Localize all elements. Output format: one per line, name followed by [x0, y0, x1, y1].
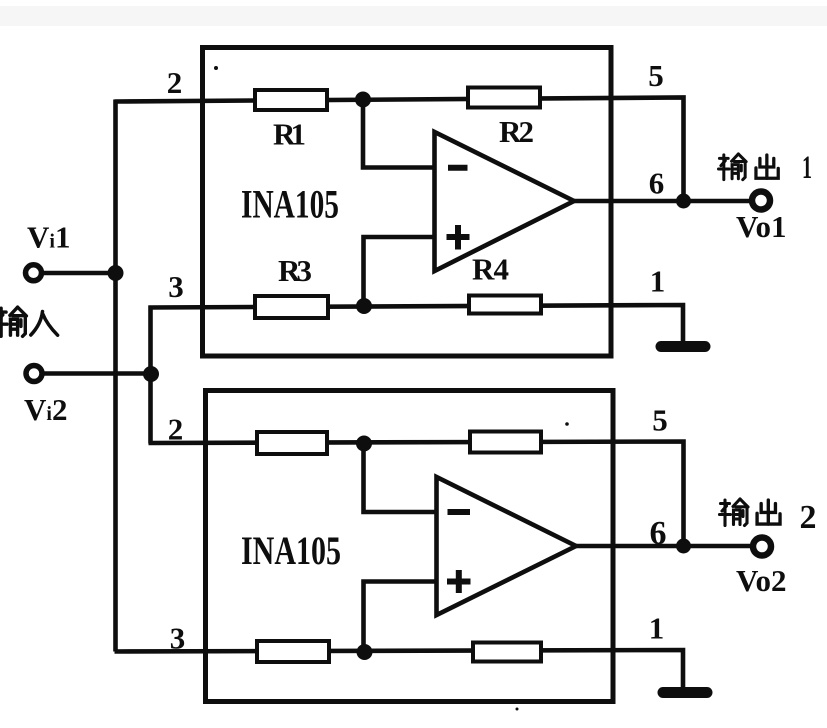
svg-text:Vo2: Vo2: [736, 563, 787, 598]
svg-text:2: 2: [168, 412, 184, 447]
svg-text:1: 1: [802, 150, 812, 186]
svg-text:2: 2: [167, 65, 183, 100]
svg-text:6: 6: [649, 166, 665, 201]
svg-text:3: 3: [168, 269, 184, 304]
svg-text:R4: R4: [472, 252, 509, 287]
svg-text:INA105: INA105: [241, 182, 339, 227]
svg-text:R1: R1: [273, 117, 306, 152]
svg-text:Vi1: Vi1: [27, 220, 70, 255]
svg-text:5: 5: [652, 403, 668, 438]
svg-text:INA105: INA105: [241, 528, 341, 573]
svg-text:2: 2: [800, 499, 817, 536]
svg-text:R2: R2: [499, 114, 534, 149]
svg-text:6: 6: [650, 515, 667, 552]
svg-text:1: 1: [649, 611, 665, 646]
svg-text:Vi2: Vi2: [24, 392, 67, 427]
svg-text:R3: R3: [278, 253, 312, 288]
svg-text:Vo1: Vo1: [736, 209, 787, 244]
svg-text:1: 1: [650, 264, 666, 299]
svg-text:5: 5: [648, 58, 664, 93]
svg-text:3: 3: [170, 621, 186, 656]
